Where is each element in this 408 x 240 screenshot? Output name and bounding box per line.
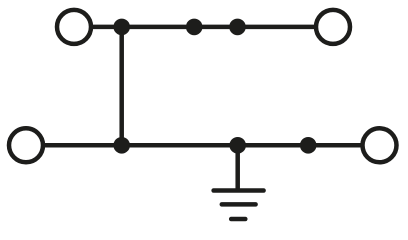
ground symbol [214, 191, 264, 220]
wire: top bus from terminal 1 to terminal 2 [90, 25, 317, 30]
terminal 4 (bottom-right connection point) [363, 128, 397, 162]
wire: vertical bridge between top and bottom bus [119, 27, 124, 145]
junction: bottom bus / bridge [113, 137, 130, 154]
junction: top bus clamp point b [229, 19, 246, 36]
terminal 3 (bottom-left connection point) [9, 128, 43, 162]
junction: bottom bus / ground drop [229, 137, 246, 154]
terminal 2 (top-right connection point) [316, 10, 350, 44]
terminal 1 (top-left connection point) [57, 10, 91, 44]
junction: top bus clamp point a [186, 19, 203, 36]
junction: top bus / bridge [113, 19, 130, 36]
wire: bottom bus from terminal 3 to terminal 4 [42, 143, 364, 148]
wire: vertical drop to ground [235, 145, 240, 190]
junction: bottom bus clamp point [300, 137, 317, 154]
